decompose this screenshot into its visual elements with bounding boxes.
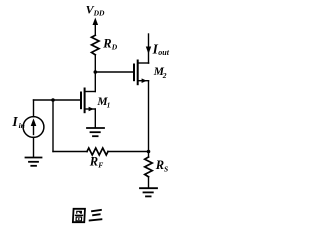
svg-text:out: out	[158, 48, 169, 57]
svg-text:I: I	[11, 114, 18, 129]
svg-text:1: 1	[107, 102, 111, 110]
svg-text:in: in	[19, 121, 25, 130]
svg-text:D: D	[111, 43, 118, 52]
svg-text:2: 2	[162, 71, 167, 80]
svg-text:DD: DD	[93, 9, 105, 18]
svg-text:F: F	[98, 161, 103, 170]
svg-text:S: S	[164, 165, 168, 174]
svg-text:R: R	[89, 155, 98, 169]
svg-text:R: R	[102, 37, 111, 51]
svg-text:R: R	[155, 158, 164, 172]
